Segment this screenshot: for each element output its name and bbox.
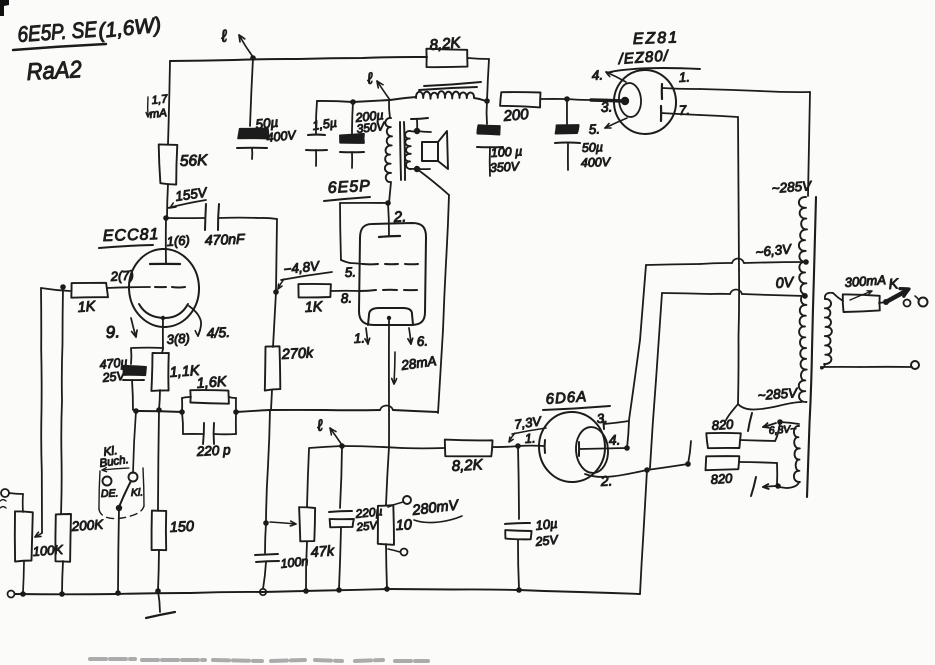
svg-text:100K: 100K — [32, 542, 65, 559]
mains terminal upper — [915, 296, 928, 307]
node 47K / ground — [303, 588, 309, 594]
wire choke to OT primary rail — [317, 97, 416, 102]
resistor 1,1K cathode bias — [151, 349, 201, 410]
fuse 300mA — [843, 272, 887, 312]
svg-text:8.: 8. — [340, 290, 352, 306]
resistor 270K (grid leak) — [265, 292, 315, 410]
wire 50u node to EZ81 cathode — [567, 99, 622, 101]
svg-text:100 µ: 100 µ — [490, 144, 522, 160]
wire speaker return (feedback) — [417, 169, 449, 413]
wire 47K top to 8,2K — [309, 446, 444, 448]
capacitor 200u 350V — [340, 102, 386, 168]
secondary ground stub — [411, 118, 428, 131]
svg-text:6.: 6. — [416, 333, 428, 349]
wire grid to 100K wiper — [35, 288, 70, 537]
6D6A pin 4 — [579, 431, 627, 456]
svg-text:1.: 1. — [353, 330, 365, 346]
ECC81 anode (pin 1(6)) — [150, 218, 190, 264]
node 220u / signal — [339, 443, 345, 449]
6E5P screen grid pin 5 (strapped to anode) — [340, 203, 418, 280]
EZ81 anode pin 1 — [662, 69, 700, 99]
svg-text:1.: 1. — [524, 430, 536, 446]
svg-text:9.: 9. — [105, 322, 120, 342]
choke / mains filter inductor — [416, 82, 486, 101]
potentiometer 100K volume — [15, 511, 65, 593]
voltage annotation -4,8V — [278, 258, 332, 289]
svg-text:150: 150 — [169, 519, 194, 536]
capacitor 470nF coupling — [166, 204, 277, 248]
EZ81 anode pin 7 — [661, 102, 700, 121]
test point 280mV — [388, 496, 462, 523]
capacitor 470u 25V cathode bypass — [99, 348, 163, 410]
node grid of 6E5P — [273, 289, 279, 295]
output transformer primary — [385, 100, 392, 203]
svg-text:3.: 3. — [600, 98, 613, 115]
svg-text:5.: 5. — [344, 264, 356, 280]
svg-text:3.: 3. — [596, 410, 608, 426]
potentiometer 47K feedback — [270, 449, 335, 591]
switch Kl. Buch. — [99, 411, 144, 592]
svg-text:~285V: ~285V — [757, 385, 799, 403]
wire cathode rail tap down to 47K wiper — [266, 410, 270, 522]
svg-text:7.: 7. — [678, 102, 690, 118]
svg-text:56K: 56K — [180, 152, 209, 170]
svg-text:100n: 100n — [280, 554, 309, 571]
capacitor 100n — [255, 523, 309, 595]
6E5P heater pin 1 arrow — [353, 328, 369, 346]
resistor 820 upper — [688, 416, 780, 464]
resistor 200K grid leak — [55, 287, 104, 594]
node heater top leg — [777, 419, 783, 425]
svg-text:200K: 200K — [70, 517, 104, 534]
current annotation 1,7mA — [146, 93, 169, 121]
heater arrow bottom f — [751, 477, 776, 496]
6E5P anode pin 2 — [379, 203, 407, 237]
node speaker bottom — [414, 166, 420, 172]
svg-text:4/5.: 4/5. — [206, 324, 230, 341]
pentode 6E5P envelope — [359, 223, 426, 325]
wire coupling cap down to grid node — [276, 219, 277, 291]
wire top rail from 56K to 8,2K — [170, 57, 427, 61]
svg-text:1,6K: 1,6K — [196, 374, 228, 392]
svg-text:DE.: DE. — [101, 487, 119, 500]
test point lower — [388, 549, 408, 556]
svg-text:50µ: 50µ — [582, 140, 604, 155]
svg-text:400V: 400V — [581, 155, 612, 170]
resistor 200 (filter) — [500, 92, 567, 125]
label 0V — [775, 275, 795, 292]
svg-text:1K: 1K — [304, 299, 324, 316]
node 150 / ground — [155, 588, 161, 594]
wire cathode rail to feedback corner — [236, 406, 437, 413]
heater arrow top f — [748, 413, 776, 431]
node 200u filter — [350, 99, 356, 105]
rectifier EZ81 envelope — [612, 68, 678, 136]
svg-text:3(8): 3(8) — [166, 330, 190, 347]
node 0V tap — [802, 293, 808, 299]
node 1,6K network left — [179, 409, 185, 415]
measurement arrow L bottom — [315, 417, 342, 445]
node 200K / ground — [59, 591, 65, 597]
svg-text:0V: 0V — [775, 275, 795, 292]
node 820 junction — [685, 461, 691, 467]
EZ81 cathode pin 3 — [600, 97, 629, 115]
node pins 3/4 tie — [624, 421, 630, 451]
capacitor 220p — [182, 412, 236, 459]
wire 0V rail down to ground node — [650, 293, 662, 468]
6D6A pin 3 — [596, 410, 629, 429]
svg-text:8,2K: 8,2K — [451, 456, 484, 475]
svg-text:8,2K: 8,2K — [429, 34, 462, 54]
wire EZ81 pin 7 to HT winding bottom — [700, 115, 802, 420]
svg-text:1,7: 1,7 — [151, 93, 169, 107]
node cathode rail left — [133, 407, 162, 414]
mains switch K — [883, 276, 911, 306]
svg-text:270k: 270k — [280, 345, 314, 363]
svg-text:2(7): 2(7) — [109, 267, 134, 284]
resistor 56K — [159, 61, 209, 218]
mains transformer core — [807, 197, 816, 497]
svg-text:220 p: 220 p — [195, 442, 231, 459]
tube label ECC81 — [99, 226, 160, 248]
EZ81 heater pin 5 arrow — [588, 118, 627, 137]
resistor 8,2K (preamp feed) — [426, 34, 489, 101]
6E5P heater pin 6 arrow — [408, 328, 429, 349]
6D6A pin 1 (left) — [518, 430, 545, 453]
node 10u / ground — [516, 587, 522, 593]
voltage annotation 155V — [168, 184, 210, 208]
ECC81 heater pin 9 arrow — [105, 318, 137, 342]
node 6,3V tap — [803, 259, 809, 265]
wire 6,3V rail down to 6D6A pins 3/4 — [629, 265, 646, 420]
node switch / ground — [115, 590, 121, 596]
svg-text:2.: 2. — [392, 208, 406, 226]
resistor 820 lower — [706, 456, 778, 487]
tube label 6D6A — [543, 388, 610, 410]
resistor 1K (ECC81 grid) — [71, 283, 108, 316]
title text RaA2 — [26, 55, 83, 85]
svg-text:10µ: 10µ — [535, 516, 558, 533]
resistor 8,2K (6D6A grid) — [445, 440, 518, 475]
svg-text:10: 10 — [395, 517, 412, 534]
node main B+ (100u) — [484, 98, 490, 104]
node 6D6A cathode/ground — [644, 467, 650, 473]
capacitor 100u 350V — [477, 101, 523, 176]
6D6A pin 2 — [585, 470, 647, 489]
wire ground node to 820s — [647, 464, 688, 470]
svg-text:25V: 25V — [355, 520, 379, 534]
scan artifact top-left corner — [0, 0, 9, 16]
tube label EZ81 /EZ80/ — [610, 29, 700, 72]
svg-text:350V: 350V — [489, 159, 521, 175]
magic eye 6D6A envelope — [537, 410, 607, 483]
ground symbol — [146, 591, 175, 618]
svg-text:47k: 47k — [310, 543, 335, 561]
wire EZ81 pin 1 to HT winding top — [700, 89, 810, 196]
ECC81 grid (pin 2(7)) dashed — [107, 267, 185, 288]
node 47K wiper / 100n — [263, 520, 269, 526]
label ~285V bottom — [757, 385, 799, 403]
svg-text:4.: 4. — [591, 67, 603, 83]
svg-text:820: 820 — [711, 416, 734, 433]
input terminal — [0, 489, 23, 512]
svg-text:~285V: ~285V — [771, 178, 813, 196]
svg-text:820: 820 — [710, 470, 733, 487]
wire cathode rail — [136, 411, 182, 412]
wire 6,3V rail — [646, 259, 806, 266]
current annotation 28mA — [392, 352, 438, 384]
svg-text:1(6): 1(6) — [166, 232, 190, 249]
node 50u filter — [564, 96, 570, 102]
node speaker top — [414, 128, 420, 134]
EZ81 inner element — [618, 82, 642, 117]
svg-text:1K: 1K — [77, 299, 97, 316]
node ECC81 anode / coupling cap — [163, 215, 169, 221]
mains transformer primary — [821, 293, 843, 369]
resistor 150 (ECC81 2nd cathode) — [152, 410, 195, 591]
node heater bottom leg — [775, 483, 781, 489]
node 10ohm / ground — [384, 586, 390, 592]
svg-text:470nF: 470nF — [205, 231, 247, 248]
capacitor 50u 400V (reservoir) — [555, 99, 612, 170]
svg-text:ECC81: ECC81 — [103, 226, 160, 245]
capacitor 1,5u — [306, 101, 338, 166]
wire ground bus — [8, 589, 641, 598]
6D6A inner target — [574, 426, 609, 474]
capacitor 10u 25V — [505, 446, 560, 589]
node 6D6A pin 1 — [515, 443, 521, 449]
resistor 1,6K — [182, 374, 236, 412]
resistor 1K (6E5P grid stopper) — [298, 284, 360, 316]
svg-text:Kl.: Kl. — [131, 487, 144, 499]
node junction top rail / 50u cap — [250, 55, 256, 61]
label ~6,3V — [755, 241, 794, 260]
svg-text:6D6A: 6D6A — [545, 388, 588, 408]
measurement arrow L at top rail — [219, 26, 253, 57]
svg-text:25V: 25V — [101, 369, 127, 386]
node 220u / ground — [336, 587, 342, 593]
svg-text:25V: 25V — [534, 533, 560, 550]
svg-text:200: 200 — [502, 106, 530, 125]
wire 6E5P cathode down to 10 ohm — [386, 410, 389, 505]
resistor 10 (cathode sense) — [378, 505, 413, 589]
label ~285V top — [771, 178, 813, 196]
svg-text:EZ81: EZ81 — [633, 29, 680, 48]
EZ81 heater pin 4 arrow — [591, 67, 626, 83]
capacitor C 50u 400V (preamp filter) — [237, 58, 298, 159]
mains terminal lower — [821, 361, 919, 369]
6E5P control grid pin 8 dashed — [340, 290, 417, 306]
6E5P cathode — [368, 308, 413, 410]
triode ECC81 envelope — [127, 247, 201, 329]
node 6E5P anode — [385, 200, 391, 206]
svg-text:300mA: 300mA — [844, 272, 886, 290]
output transformer secondary — [405, 131, 431, 169]
wire ground node down to bus — [640, 470, 647, 594]
output transformer core — [400, 122, 405, 180]
capacitor 220u 25V — [329, 446, 383, 589]
svg-text:1.: 1. — [678, 69, 690, 85]
ECC81 cathode (pin 3(8)) — [139, 304, 190, 349]
voltage annotation 7,3V — [509, 413, 546, 442]
svg-text:2.: 2. — [599, 472, 613, 489]
scan artifact bottom band — [90, 659, 428, 661]
svg-text:mA: mA — [149, 107, 168, 121]
measurement arrow L mid — [365, 70, 390, 100]
svg-text:RaA2: RaA2 — [26, 55, 83, 85]
node 1,6K network right — [233, 409, 239, 415]
speaker — [422, 131, 448, 169]
svg-text:6,3V~: 6,3V~ — [768, 423, 797, 437]
node 100K / ground — [20, 591, 26, 597]
title text 6E5P.SE (1,6W) — [13, 14, 162, 50]
mains transformer HT secondary — [799, 197, 807, 402]
wire 0V rail — [662, 290, 805, 297]
heater winding 6,3V~ — [768, 422, 800, 488]
svg-text:5.: 5. — [588, 121, 600, 137]
svg-text:6E5P: 6E5P — [327, 178, 371, 197]
ECC81 heater pins 4/5 arrow — [189, 306, 230, 341]
svg-text:4.: 4. — [608, 431, 621, 448]
tube label 6E5P — [324, 178, 371, 201]
node grid / 200K — [60, 284, 66, 290]
svg-text:/EZ80/: /EZ80/ — [617, 47, 670, 68]
